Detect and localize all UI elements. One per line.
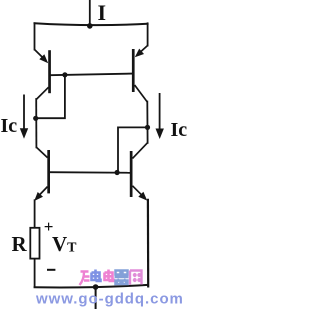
current arrow Ic left <box>20 95 28 139</box>
node: right collector junction <box>145 125 150 130</box>
wire: Q2 emitter drop <box>147 23 149 45</box>
svg-text:Ic: Ic <box>171 119 188 141</box>
wire: Q1 emitter drop <box>34 23 36 49</box>
node: bottom junction <box>93 284 99 290</box>
wire: bottom stub <box>95 287 97 309</box>
current arrow Ic right <box>156 93 164 139</box>
wire: base rail top <box>51 74 133 76</box>
transistor Q1 (top-left PNP) <box>35 50 51 100</box>
wire: right collector drop <box>146 102 148 143</box>
watermark: CJK characters 广电电器网 <box>80 270 142 286</box>
svg-text:I: I <box>98 0 107 25</box>
transistor Q3 (bottom-left NPN) <box>34 147 50 201</box>
wire: top supply stub <box>89 0 91 25</box>
wire: left collector drop <box>35 99 37 147</box>
wire: below resistor <box>34 259 36 287</box>
node: base junction bottom <box>115 170 120 175</box>
resistor R <box>30 228 39 259</box>
label − (VT polarity) <box>47 269 55 271</box>
wire: Q1 diode branch <box>36 75 65 119</box>
transistor Q2 (top-right PNP) <box>132 46 148 103</box>
wire: right emitter drop <box>147 200 150 287</box>
wire: bottom rail <box>35 285 148 288</box>
svg-text:R: R <box>12 232 28 256</box>
transistor Q4 (bottom-right NPN) <box>130 142 148 200</box>
node: base junction top <box>62 72 67 77</box>
svg-text:www.go-gddq.com: www.go-gddq.com <box>35 291 184 308</box>
wire: top rail <box>35 23 148 25</box>
node: top junction <box>87 23 93 29</box>
svg-text:Ic: Ic <box>1 115 18 137</box>
node: left collector junction <box>33 116 38 121</box>
wire: base rail bottom <box>50 171 130 174</box>
wire: Q4 diode branch <box>118 127 147 172</box>
wire: left emitter drop <box>34 200 36 228</box>
